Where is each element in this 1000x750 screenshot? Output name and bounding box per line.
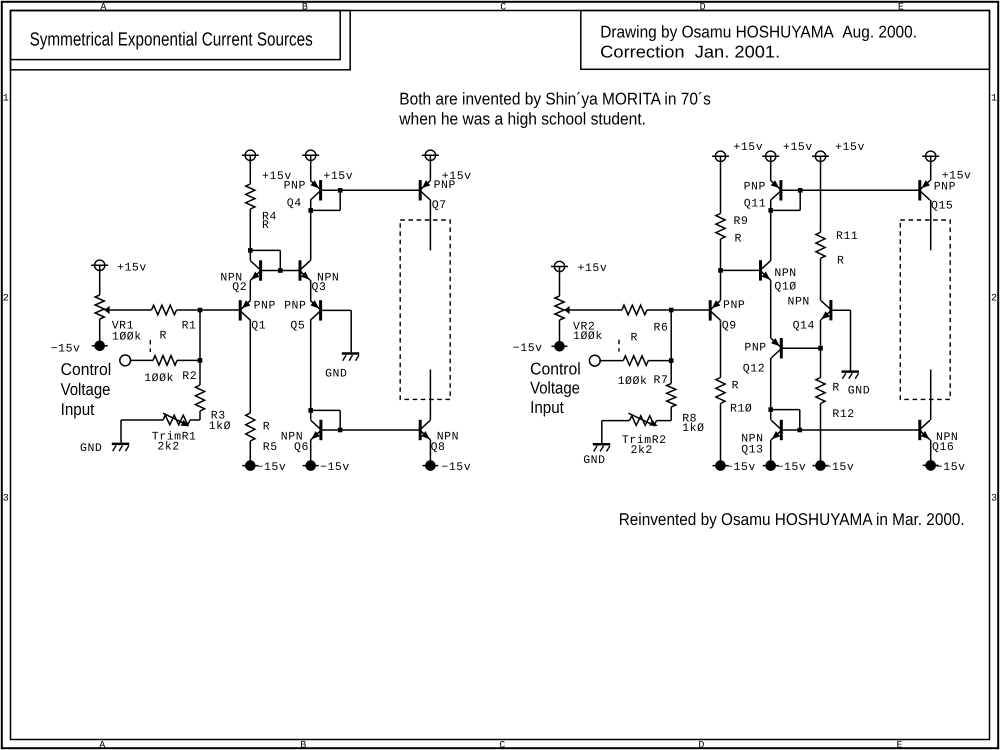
wire Q14 base gnd drop	[850, 310, 852, 370]
wire Q4 collector	[310, 200, 312, 210]
svg-text:1kØ: 1kØ	[682, 422, 704, 435]
node E2 junction (Q11 base tie)	[798, 188, 803, 193]
svg-text:2k2: 2k2	[157, 441, 179, 454]
wire P8 to R11	[820, 161, 822, 232]
svg-text:GND: GND	[583, 454, 605, 467]
wire R9 to node A3	[720, 239, 722, 270]
wire tie across right	[771, 209, 801, 211]
wire R8 to trimmer	[670, 407, 672, 421]
svg-text:3: 3	[3, 494, 9, 505]
svg-text:PNP: PNP	[254, 300, 276, 313]
resistor R4 body	[246, 184, 255, 209]
ground symbol Q5 base	[342, 352, 359, 355]
dashed load box right	[900, 220, 950, 399]
svg-text:PNP: PNP	[723, 299, 745, 312]
wire VR1 bottom	[99, 319, 101, 341]
wire R12 to -15v	[820, 404, 822, 462]
dashed load box left	[400, 220, 450, 399]
wire node G drop	[339, 410, 341, 430]
power +15v terminal P5 (VR2 top)	[554, 261, 564, 271]
svg-text:−15v: −15v	[777, 461, 807, 474]
svg-text:A: A	[99, 740, 105, 750]
transistor Q6 (NPN)	[319, 420, 322, 440]
svg-text:−15v: −15v	[257, 461, 287, 474]
wire drop to base rail	[279, 250, 281, 270]
header box	[581, 11, 990, 70]
svg-text:−15v: −15v	[51, 342, 81, 355]
svg-text:GND: GND	[325, 367, 347, 380]
-15v terminal (R10)	[713, 465, 729, 467]
svg-text:−15v: −15v	[726, 461, 756, 474]
svg-text:Q2: Q2	[232, 281, 247, 294]
wire node G2 drop	[799, 410, 801, 430]
wire input to R7	[599, 360, 623, 362]
svg-text:+15v: +15v	[835, 141, 865, 154]
-15v terminal (Q13)	[763, 465, 779, 467]
svg-text:R: R	[263, 421, 270, 434]
svg-text:A: A	[100, 2, 106, 13]
wire Q6-Q8 base rail	[321, 429, 420, 431]
svg-text:Q1: Q1	[251, 320, 266, 333]
wire Q13-Q16 base rail	[781, 429, 920, 431]
resistor R7 body	[623, 356, 648, 366]
transistor Q8 (NPN)	[419, 420, 422, 440]
wire node A3 to Q10 base	[721, 269, 761, 271]
power +15v terminal P2 (R4 top)	[245, 150, 255, 160]
power +15v terminal P1 (VR1 top)	[95, 260, 105, 270]
wire VR2 top	[559, 271, 561, 296]
svg-text:R2: R2	[182, 370, 197, 383]
trimmer TrimR1 body	[163, 415, 190, 425]
node C junction (R4 bottom)	[248, 248, 253, 253]
wire R4 to node C	[249, 209, 251, 250]
resistor R3 body	[195, 385, 204, 411]
control input open circle right	[589, 355, 600, 366]
gang dashes VR1-R2	[149, 340, 151, 352]
resistor R9 body	[716, 214, 725, 240]
svg-text:R6: R6	[654, 321, 669, 334]
node A junction (R1/R2 column top)	[198, 308, 203, 313]
wire Q6 collector up	[310, 410, 312, 419]
potentiometer VR1 body	[95, 295, 104, 319]
wire Q14 emitter down	[820, 320, 822, 348]
wire R3 to trimmer	[199, 411, 201, 420]
svg-text:Q7: Q7	[432, 199, 447, 212]
title box outer	[11, 11, 351, 70]
wire R2 to node B	[177, 359, 200, 361]
svg-text:Q6: Q6	[294, 441, 309, 454]
svg-text:+15v: +15v	[783, 141, 813, 154]
svg-text:R5: R5	[263, 441, 278, 454]
node E junction (Q4 base tie)	[338, 188, 343, 193]
svg-text:R11: R11	[836, 230, 858, 243]
svg-text:1kØ: 1kØ	[209, 420, 231, 433]
svg-text:C: C	[500, 2, 506, 13]
svg-text:Drawing by Osamu HOSHUYAMA Au: Drawing by Osamu HOSHUYAMA Aug. 2000.	[600, 23, 917, 42]
svg-text:PNP: PNP	[434, 179, 456, 192]
wire P3 to Q4 emitter	[310, 160, 312, 181]
power +15v terminal P4 (Q7)	[425, 150, 435, 160]
wire Q8 emitter down	[429, 440, 431, 461]
wire wiper to R1	[105, 309, 152, 311]
wire node B down to R3	[199, 360, 201, 385]
ground symbol Q14	[842, 370, 859, 373]
svg-text:GND: GND	[80, 442, 102, 455]
power +15v terminal P6	[715, 151, 725, 161]
svg-text:+15v: +15v	[578, 262, 608, 275]
wire Q12 collector down	[770, 358, 772, 410]
power +15v terminal P3 (Q4)	[306, 150, 316, 160]
svg-text:3: 3	[991, 494, 997, 505]
transistor Q9 (PNP)	[709, 300, 712, 320]
TrimR1 arrow	[163, 413, 183, 423]
wire Q9 collector down to R10	[720, 320, 722, 377]
-15v terminal (R5)	[242, 465, 258, 467]
svg-text:Reinvented by Osamu HOSHUYAMA: Reinvented by Osamu HOSHUYAMA in Mar. 20…	[619, 510, 965, 529]
svg-text:−15v: −15v	[441, 461, 471, 474]
wire Q6 emitter down	[310, 440, 312, 461]
svg-text:−15v: −15v	[513, 342, 543, 355]
wire input to R2	[130, 359, 153, 361]
svg-text:Q12: Q12	[743, 362, 765, 375]
wire trimmer2 right	[657, 420, 672, 422]
svg-text:R9: R9	[734, 215, 749, 228]
wire R11 to Q14 collector	[820, 258, 822, 300]
wire trimmer right	[190, 419, 200, 421]
-15v terminal (Q16)	[923, 464, 939, 466]
wire Q11 base rail	[781, 189, 920, 191]
svg-text:E: E	[896, 740, 902, 750]
svg-text:+15v: +15v	[323, 170, 353, 183]
wire P2 to R4	[249, 160, 251, 184]
wire VR1 top	[99, 270, 101, 295]
svg-text:R: R	[837, 254, 844, 267]
wire tie drop right	[799, 190, 801, 210]
ground symbol trimmer left	[112, 443, 129, 446]
svg-text:Q4: Q4	[287, 197, 302, 210]
svg-text:Correction Jan. 2001.: Correction Jan. 2001.	[600, 42, 780, 61]
gang dashes VR2-R7	[618, 340, 620, 352]
svg-text:1ØØk: 1ØØk	[618, 375, 648, 388]
svg-text:Q1Ø: Q1Ø	[774, 281, 796, 294]
wire node B2 down to R8	[670, 361, 672, 384]
node B2 junction	[669, 358, 674, 363]
node I2 junction (Q14 emitter / Q12 base)	[818, 346, 823, 351]
svg-text:R: R	[732, 380, 739, 393]
power +15v terminal P9 (Q15)	[926, 151, 936, 161]
svg-text:Symmetrical Exponential Curren: Symmetrical Exponential Current Sources	[30, 30, 313, 51]
node A2 junction	[669, 308, 674, 313]
resistor R10 body	[716, 378, 725, 404]
wire node G right	[311, 409, 341, 411]
wire Q14 base right	[831, 309, 851, 311]
wire Q7 collector down	[429, 200, 431, 250]
ground symbol trimmer right circuit	[593, 443, 610, 446]
node H2 junction (Q13 base)	[798, 428, 803, 433]
svg-text:B: B	[302, 2, 308, 13]
wire tie drop	[339, 190, 341, 210]
resistor R8 body	[667, 384, 676, 408]
wire Q4 base rail	[321, 189, 421, 191]
wire node F down to Q3	[310, 210, 312, 260]
node A3 junction (R9/Q10 base/Q9 emitter)	[718, 268, 723, 273]
wire Q3 emitter down	[310, 280, 312, 300]
svg-text:Q5: Q5	[290, 320, 305, 333]
TrimR2 arrow	[629, 413, 651, 424]
wire tie across	[311, 209, 341, 211]
transistor Q13 (NPN)	[780, 420, 783, 440]
node G junction (Q5 collector to Q6)	[308, 408, 313, 413]
svg-text:R: R	[832, 382, 839, 395]
svg-text:2: 2	[991, 294, 997, 305]
svg-text:E: E	[898, 2, 904, 13]
svg-text:1ØØk: 1ØØk	[112, 330, 142, 343]
node B junction	[198, 358, 203, 363]
svg-text:−15v: −15v	[825, 461, 855, 474]
svg-text:+15v: +15v	[733, 141, 763, 154]
wire Q8 collector up	[429, 370, 431, 421]
svg-text:Input: Input	[530, 398, 564, 417]
wire Q13 collector up	[770, 410, 772, 420]
wire R5 to -15v	[249, 441, 251, 461]
node F junction (Q4 collector)	[308, 208, 313, 213]
svg-text:R7: R7	[654, 374, 669, 387]
svg-text:Control: Control	[61, 360, 112, 379]
transistor Q2 (NPN)	[259, 260, 262, 280]
wire node F2 down to Q10	[770, 210, 772, 260]
-15v terminal (Q6)	[303, 465, 319, 467]
wire P7 to Q11 emitter	[770, 161, 772, 181]
svg-text:PNP: PNP	[744, 342, 766, 355]
wire Q16 collector up	[930, 370, 932, 421]
potentiometer VR2 body	[555, 296, 564, 320]
svg-text:PNP: PNP	[744, 180, 766, 193]
svg-text:1ØØk: 1ØØk	[144, 372, 174, 385]
svg-text:Q15: Q15	[931, 200, 953, 213]
wire trimmer left	[121, 419, 163, 421]
resistor R1 body	[152, 305, 177, 315]
node F2 junction (Q11 collector)	[768, 208, 773, 213]
node G2 junction (Q12 collector)	[768, 407, 773, 412]
wire Q5 base gnd drop	[350, 310, 352, 352]
svg-text:D: D	[698, 740, 704, 750]
wire VR2 bottom	[559, 320, 561, 342]
svg-text:1ØØk: 1ØØk	[573, 330, 603, 343]
wire Q2 emitter down	[249, 280, 251, 300]
power +15v terminal P7 (Q11)	[766, 151, 776, 161]
svg-text:Input: Input	[61, 400, 95, 419]
svg-text:1: 1	[991, 94, 997, 105]
resistor R11 body	[816, 232, 825, 258]
control input open circle	[120, 355, 131, 366]
resistor R6 body	[622, 305, 647, 315]
resistor R12 body	[816, 378, 825, 404]
transistor Q11 (PNP)	[779, 180, 782, 200]
transistor Q15 (PNP)	[918, 180, 921, 200]
wire Q5 collector down	[310, 320, 312, 410]
transistor Q3 (NPN)	[299, 260, 302, 280]
wire wiper to R6	[564, 309, 622, 311]
svg-text:R1: R1	[182, 320, 197, 333]
svg-text:−15v: −15v	[320, 461, 350, 474]
svg-text:R1Ø: R1Ø	[730, 402, 752, 415]
svg-text:2: 2	[3, 294, 9, 305]
wire P9 to Q15 emitter	[930, 161, 932, 181]
-15v terminal (Q8)	[422, 465, 438, 467]
svg-text:Q14: Q14	[793, 320, 815, 333]
svg-text:1: 1	[3, 94, 9, 105]
trimmer TrimR2 body	[630, 416, 657, 426]
wire Q12 base right	[781, 347, 820, 349]
svg-text:Voltage: Voltage	[61, 380, 111, 399]
svg-text:R12: R12	[832, 408, 854, 421]
wire Q13 emitter down	[770, 440, 772, 461]
wire node A2 down	[670, 310, 672, 361]
svg-text:−15v: −15v	[936, 461, 966, 474]
-15v terminal VR2	[552, 345, 568, 347]
svg-text:NPN: NPN	[788, 296, 810, 309]
wire Q2-Q3 base rail	[261, 270, 300, 272]
svg-text:PNP: PNP	[934, 180, 956, 193]
svg-text:Q13: Q13	[741, 444, 763, 457]
svg-text:R: R	[160, 330, 167, 343]
wire node C right	[250, 249, 280, 251]
title box inner	[11, 11, 341, 60]
svg-text:Voltage: Voltage	[530, 378, 580, 397]
svg-text:GND: GND	[848, 385, 870, 398]
svg-text:Q9: Q9	[722, 320, 737, 333]
wire P4 to Q7 emitter	[429, 160, 431, 181]
svg-text:PNP: PNP	[284, 300, 306, 313]
transistor Q1 (PNP)	[239, 300, 242, 320]
svg-text:PNP: PNP	[284, 179, 306, 192]
svg-text:D: D	[700, 2, 706, 13]
transistor Q14 (NPN)	[829, 300, 832, 320]
wire trimmer gnd drop	[120, 420, 122, 443]
svg-text:Q8: Q8	[431, 441, 446, 454]
node D junction (base rail)	[278, 268, 283, 273]
transistor Q12 (PNP)	[780, 338, 783, 358]
wire node A3 to Q9 emitter	[720, 270, 722, 300]
svg-text:B: B	[300, 740, 306, 750]
wire node I2 down to R12	[820, 348, 822, 377]
wire Q16 emitter down	[930, 440, 932, 461]
wire R7 to node B2	[648, 360, 671, 362]
svg-text:Q11: Q11	[744, 197, 766, 210]
resistor R2 body	[153, 356, 177, 366]
wire node A down	[199, 310, 201, 360]
wire Q15 collector down	[930, 200, 932, 250]
wire Q10 emitter down	[770, 280, 772, 338]
wire Q1 collector down to R5	[249, 320, 251, 413]
transistor Q10 (NPN)	[759, 260, 762, 280]
svg-text:when he was a high school stud: when he was a high school student.	[398, 110, 646, 129]
wire node G2 right	[771, 409, 800, 411]
svg-text:R: R	[631, 332, 638, 345]
power +15v terminal P8	[815, 151, 825, 161]
wire node C to Q2 collector	[249, 250, 251, 260]
wire trimmer2 left	[602, 420, 630, 422]
wire P6 to R9	[720, 161, 722, 214]
transistor Q7 (PNP)	[419, 180, 422, 200]
resistor R5 body	[246, 413, 255, 441]
svg-text:Q16: Q16	[932, 441, 954, 454]
svg-text:Q3: Q3	[312, 281, 327, 294]
wire R6 to node A2	[647, 309, 709, 311]
svg-text:C: C	[499, 740, 505, 750]
svg-text:2k2: 2k2	[631, 444, 653, 457]
transistor Q16 (NPN)	[918, 420, 921, 440]
svg-text:R: R	[262, 219, 269, 232]
transistor Q5 (PNP)	[319, 300, 322, 320]
transistor Q4 (PNP)	[319, 180, 322, 200]
svg-text:Control: Control	[530, 359, 581, 378]
svg-text:NPN: NPN	[774, 267, 796, 280]
svg-text:Both are invented by Shin´ya M: Both are invented by Shin´ya MORITA in 7…	[399, 89, 711, 108]
-15v terminal (R12)	[813, 465, 829, 467]
svg-text:+15v: +15v	[117, 262, 147, 275]
wire Q11 collector	[770, 200, 772, 210]
VR2 wiper arrow	[564, 306, 569, 314]
svg-text:R: R	[735, 233, 742, 246]
VR1 wiper arrow	[104, 306, 109, 314]
wire trimmer2 gnd drop	[601, 421, 603, 444]
wire R1 to node A	[177, 309, 241, 311]
wire R10 to -15v	[720, 404, 722, 462]
node H junction (Q6 base)	[338, 428, 343, 433]
-15v terminal VR1	[92, 345, 108, 347]
wire Q5 base right	[321, 309, 352, 311]
